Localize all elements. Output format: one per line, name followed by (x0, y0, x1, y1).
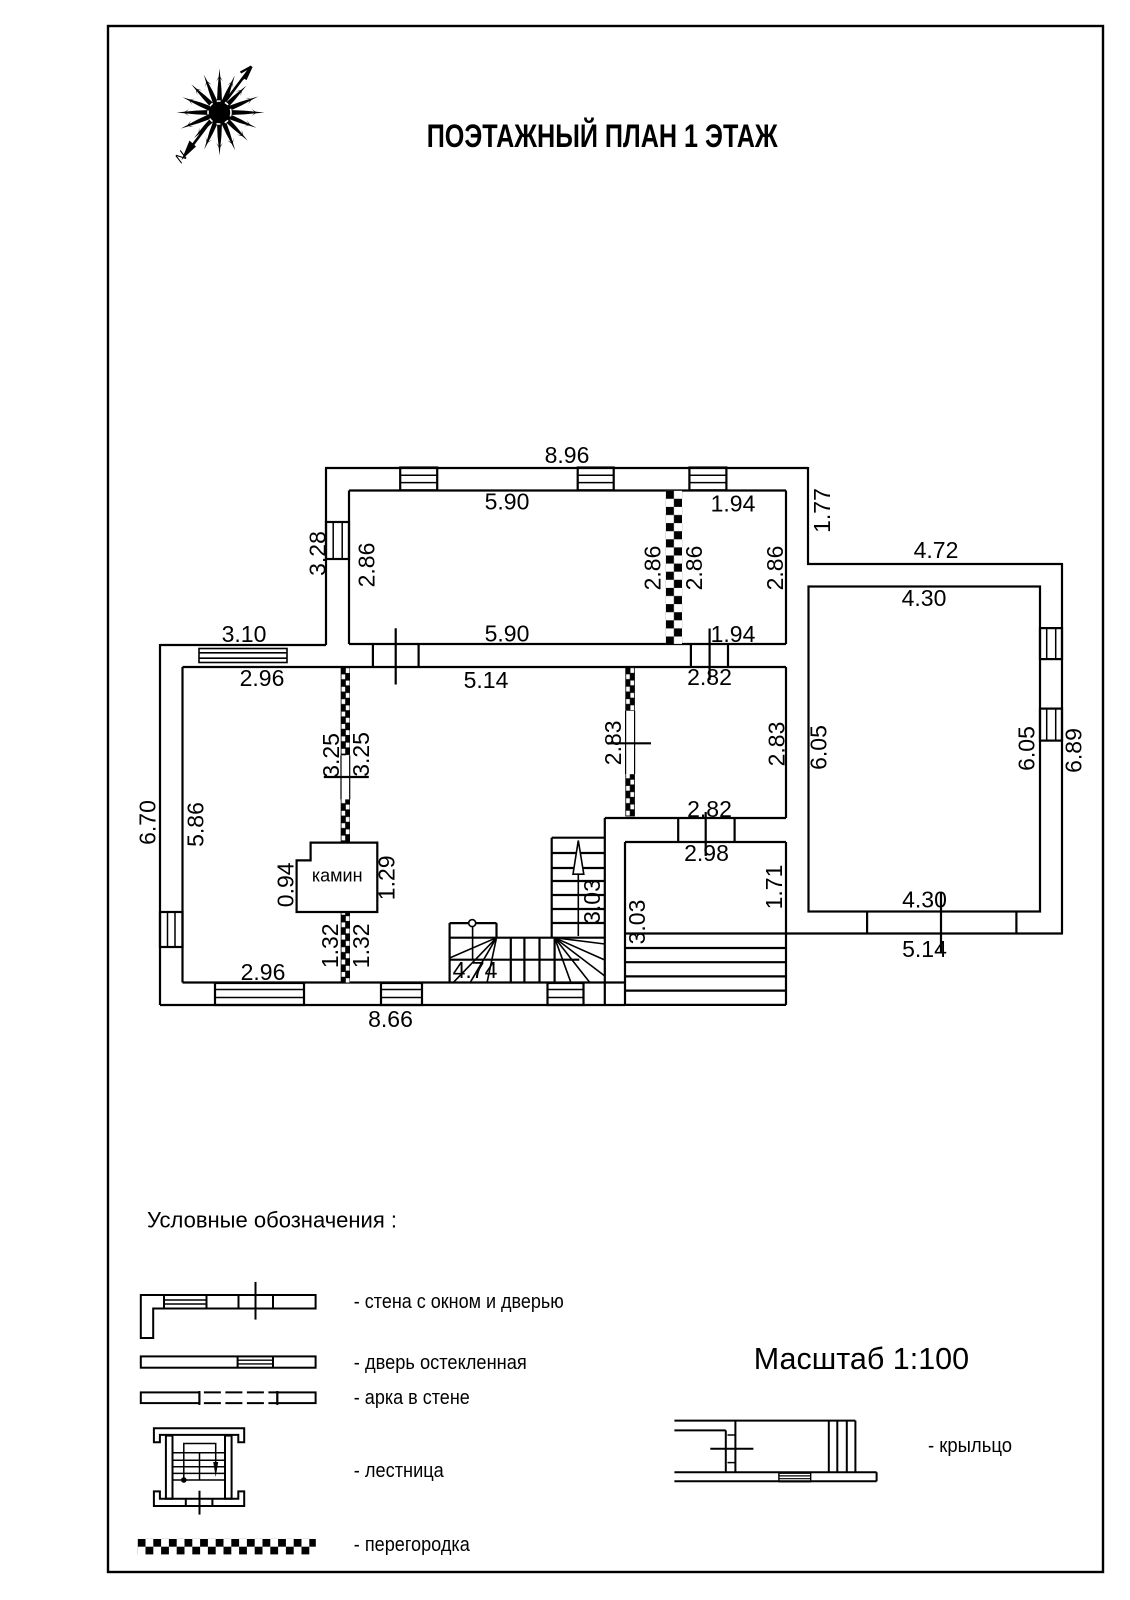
door D2 jambs (691, 644, 728, 667)
door D1 jambs (373, 644, 419, 667)
dimension tick T5 (324, 776, 369, 778)
wall outer right-room right (1061, 563, 1063, 934)
svg-text:6.70: 6.70 (135, 800, 161, 845)
wall inner right column x786 seg1 (785, 491, 787, 645)
stairs left winder fan (450, 938, 497, 983)
svg-text:- арка в стене: - арка в стене (354, 1387, 470, 1409)
window W10 right-room right wall (1040, 628, 1062, 659)
arch opening in partition P3 (626, 711, 635, 775)
svg-text:камин: камин (312, 866, 363, 886)
svg-text:8.96: 8.96 (545, 442, 590, 468)
svg-text:Масштаб 1:100: Масштаб 1:100 (754, 1342, 969, 1376)
legend porch symbol (674, 1421, 876, 1482)
svg-text:3.25: 3.25 (318, 733, 344, 778)
stairs right winder fan (555, 938, 605, 983)
partition P3 upper (625, 667, 635, 710)
compass south arrowhead (182, 141, 197, 161)
svg-text:1.32: 1.32 (317, 923, 343, 968)
svg-text:Условные обозначения :: Условные обозначения : (147, 1208, 397, 1233)
legend partition symbol (138, 1539, 316, 1555)
svg-text:- крыльцо: - крыльцо (928, 1435, 1012, 1457)
window W11 right-room right wall (1040, 709, 1062, 741)
svg-text:2.82: 2.82 (687, 796, 732, 822)
svg-text:- стена с окном и дверью: - стена с окном и дверью (354, 1291, 564, 1313)
dimension tick T6 (608, 742, 651, 744)
svg-text:2.98: 2.98 (684, 840, 729, 866)
svg-text:5.14: 5.14 (902, 936, 947, 962)
svg-text:3.03: 3.03 (624, 900, 650, 945)
wall inner bottom (183, 981, 626, 983)
wall inner right column x786 seg2 (785, 667, 787, 818)
compass hub (209, 102, 230, 123)
svg-text:- перегородка: - перегородка (354, 1534, 471, 1556)
svg-text:- лестница: - лестница (354, 1460, 445, 1482)
compass star rays (177, 69, 265, 156)
compass needle NE-SW (189, 67, 252, 151)
svg-text:3.25: 3.25 (348, 732, 374, 777)
wall segment 1.77 (807, 467, 809, 564)
wall inner right column x786 seg3 (785, 842, 787, 934)
door D4 opening right room (867, 912, 1016, 934)
dimension tick T3 (705, 812, 707, 856)
svg-text:4.30: 4.30 (902, 585, 947, 611)
svg-text:3.03: 3.03 (579, 879, 605, 924)
wall outer left (159, 644, 161, 1005)
svg-text:2.86: 2.86 (681, 546, 707, 591)
COMPASS (171, 67, 264, 167)
svg-text:4.30: 4.30 (902, 887, 947, 913)
svg-text:1.71: 1.71 (761, 865, 787, 910)
partition P1 top rooms (666, 491, 682, 644)
window W6 left wall (160, 912, 183, 947)
svg-text:ПОЭТАЖНЫЙ ПЛАН 1 ЭТАЖ: ПОЭТАЖНЫЙ ПЛАН 1 ЭТАЖ (427, 118, 779, 154)
window W2 top wall (578, 468, 614, 491)
partition P2 lower (341, 799, 350, 841)
stair newel line (472, 927, 474, 960)
legend arch symbol (141, 1391, 316, 1405)
wall mid horizontal upper line (349, 643, 786, 645)
svg-text:2.83: 2.83 (764, 722, 790, 767)
window W3 top wall (689, 468, 726, 491)
svg-text:2.96: 2.96 (241, 959, 286, 985)
legend stairs symbol (154, 1428, 244, 1514)
svg-text:2.86: 2.86 (354, 543, 380, 588)
svg-text:6.05: 6.05 (1014, 726, 1040, 771)
stair newel circle (469, 920, 476, 927)
window W4 top-room left wall (326, 522, 349, 559)
svg-text:4.74: 4.74 (453, 957, 498, 983)
svg-text:2.83: 2.83 (600, 720, 626, 765)
fireplace (297, 843, 378, 912)
legend glazed door symbol (141, 1356, 316, 1367)
svg-text:2.96: 2.96 (240, 665, 285, 691)
partition P2 below fireplace (341, 912, 350, 983)
svg-text:5.90: 5.90 (485, 489, 530, 515)
window W7 bottom wall (215, 983, 304, 1005)
window W9 bottom wall (548, 983, 584, 1005)
wall outer right-room top (807, 563, 1062, 565)
arch opening in partition P2 (341, 755, 350, 799)
stair direction arrow (573, 841, 584, 937)
wall right-room inner rect (809, 587, 1041, 912)
wall outer bottom right span (625, 932, 1063, 934)
svg-text:6.89: 6.89 (1061, 728, 1087, 773)
svg-text:3.10: 3.10 (222, 621, 267, 647)
stairs lower flight (450, 938, 605, 983)
svg-text:5.14: 5.14 (464, 667, 509, 693)
stairs left landing block (450, 923, 497, 983)
svg-text:0.94: 0.94 (273, 862, 299, 907)
wall inner left (181, 667, 183, 983)
window W1 top wall (400, 468, 437, 491)
door D3 jambs (678, 818, 734, 842)
wall outer left top 3.10 (160, 644, 326, 646)
svg-text:2.82: 2.82 (687, 664, 732, 690)
dimension tick T4 (940, 893, 942, 952)
TITLE (427, 118, 779, 154)
svg-text:- дверь остекленная: - дверь остекленная (354, 1352, 527, 1374)
wall outer bottom (160, 1004, 625, 1006)
svg-text:5.90: 5.90 (485, 621, 530, 647)
svg-text:8.66: 8.66 (368, 1006, 413, 1032)
wall between rooms 2.83 and 2.98 upper line (605, 817, 786, 819)
partition P2 upper (341, 668, 350, 756)
window W8 bottom wall (381, 983, 422, 1005)
svg-text:2.86: 2.86 (640, 546, 666, 591)
svg-text:1.32: 1.32 (348, 923, 374, 968)
wall mid horizontal lower line (183, 666, 787, 668)
PLAN (160, 467, 1063, 1005)
wall inner top-room top (349, 489, 786, 491)
svg-text:3.28: 3.28 (305, 531, 331, 576)
dimension tick T1 (395, 628, 397, 684)
wall stairwell right (604, 818, 606, 1005)
LEGEND (138, 1208, 1012, 1557)
wall left of room 2.98 (624, 842, 626, 1005)
stairs upper flight (552, 838, 605, 938)
dimension tick T2 (708, 629, 710, 681)
svg-text:2.86: 2.86 (762, 546, 788, 591)
wall between rooms 2.83 and 2.98 lower line (625, 841, 786, 843)
legend wall-with-window symbol (141, 1282, 316, 1338)
svg-text:1.94: 1.94 (711, 491, 756, 517)
window W5 in 3.10 wall (199, 649, 287, 663)
porch steps below room 2.98 (625, 934, 786, 1005)
svg-text:1.29: 1.29 (374, 855, 400, 900)
wall outer top-room left (325, 468, 327, 645)
svg-text:1.77: 1.77 (809, 488, 835, 533)
svg-text:6.05: 6.05 (806, 725, 832, 770)
wall inner top-room left (348, 491, 350, 645)
partition P3 lower (625, 774, 635, 816)
svg-text:1.94: 1.94 (711, 621, 756, 647)
wall outer top (325, 467, 808, 469)
svg-text:5.86: 5.86 (183, 802, 209, 847)
svg-text:4.72: 4.72 (914, 537, 959, 563)
